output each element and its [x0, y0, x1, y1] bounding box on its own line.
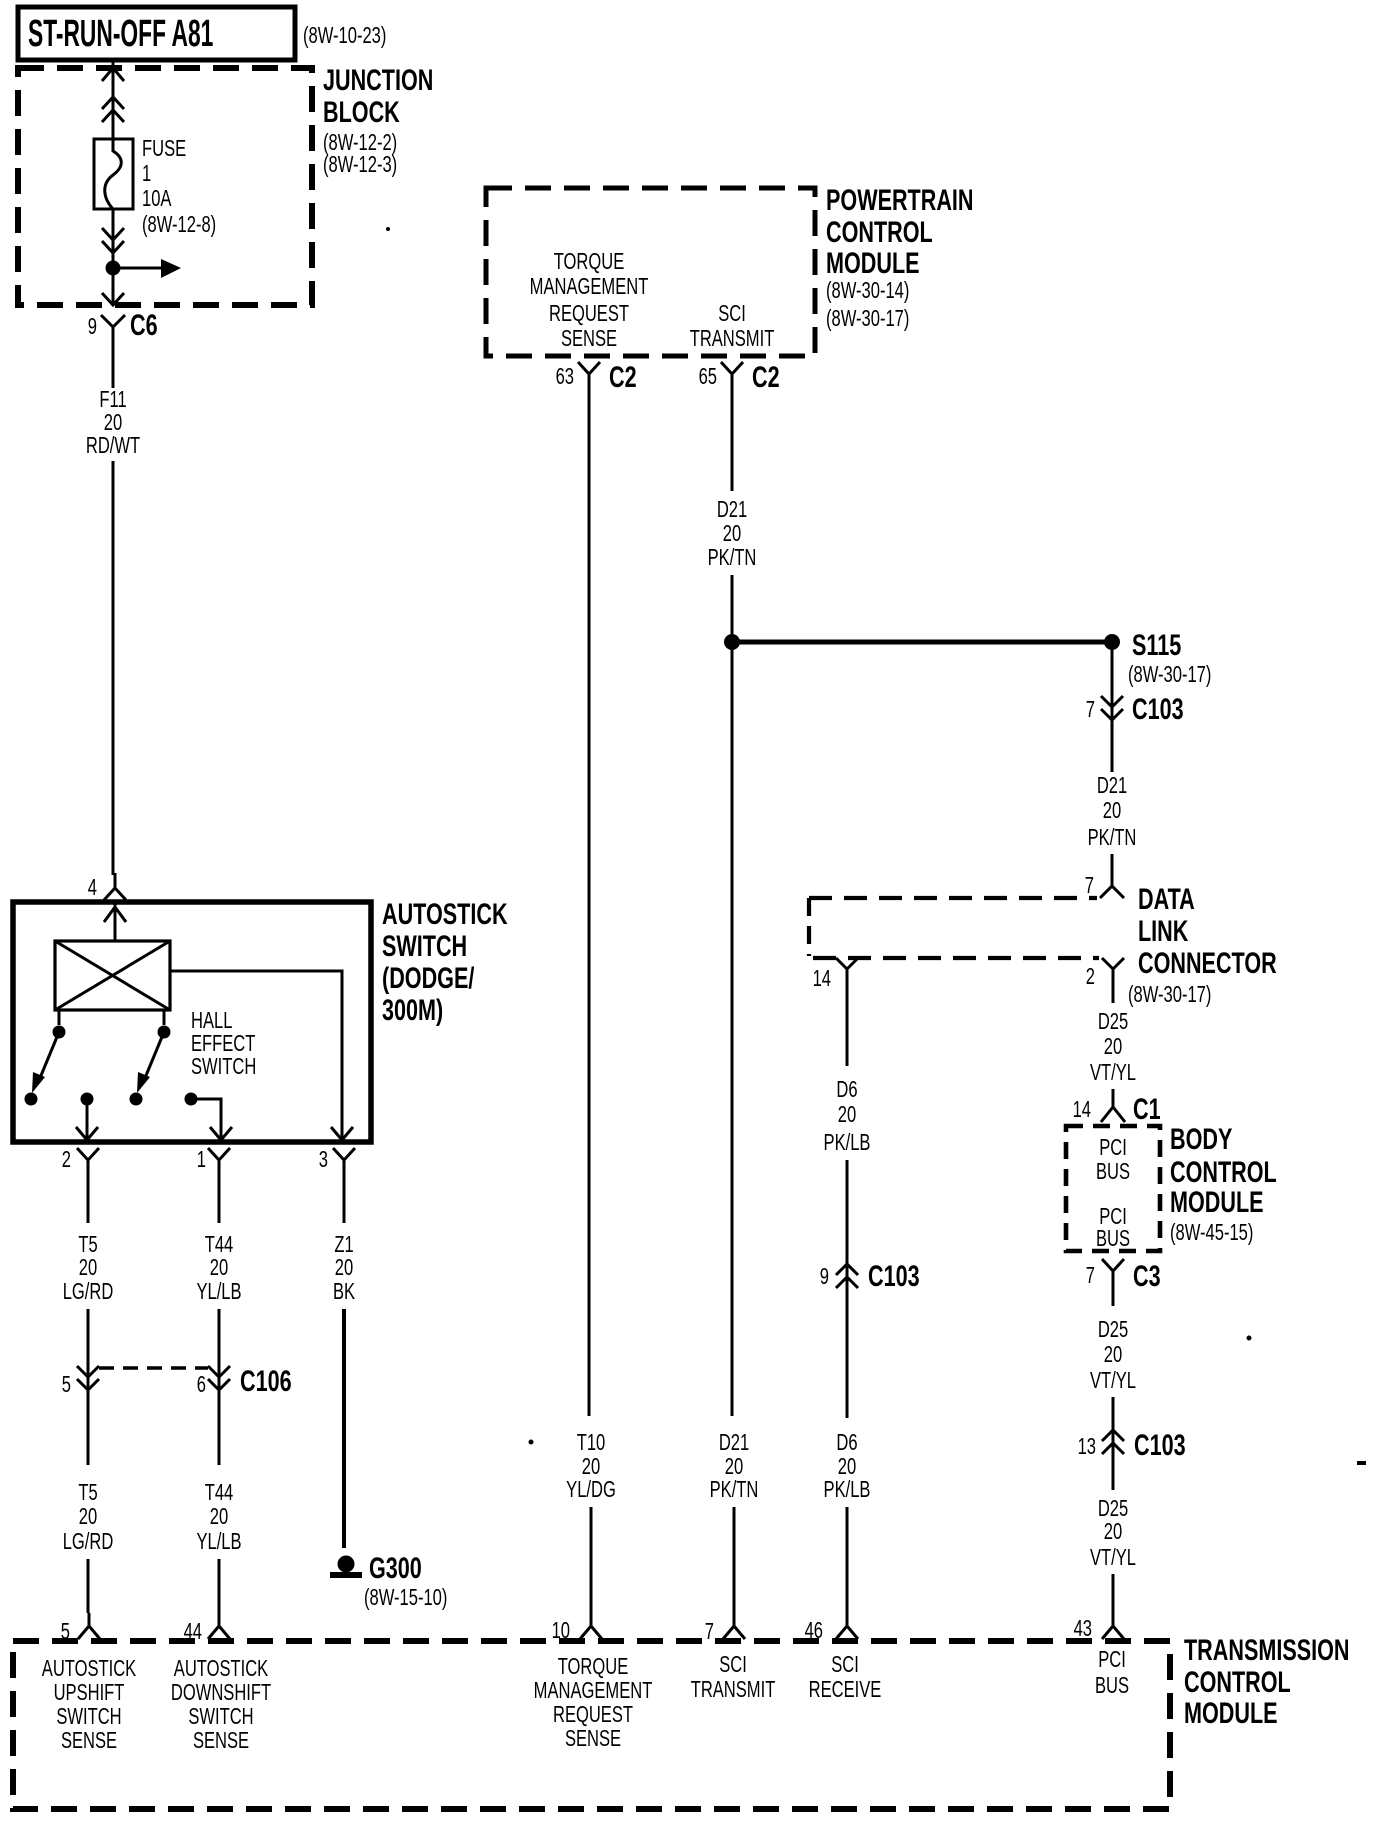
svg-text:TRANSMIT: TRANSMIT [691, 1677, 776, 1702]
wire T44 lower [218, 1390, 221, 1465]
wire T44 upper [218, 1176, 221, 1223]
svg-text:D25: D25 [1098, 1317, 1128, 1342]
wire D25 below C3 [1112, 1291, 1115, 1306]
wire label F11 20 RD/WT [86, 387, 140, 458]
svg-text:D25: D25 [1098, 1496, 1128, 1521]
svg-text:D25: D25 [1098, 1009, 1128, 1034]
TCM pin 10 [552, 1613, 602, 1644]
wire below fuse [112, 209, 115, 262]
wire T44 to TCM [218, 1559, 221, 1613]
svg-text:43: 43 [1074, 1616, 1092, 1641]
node ST-RUN-OFF A81 feed box [18, 7, 295, 60]
wire D6 to TCM [846, 1507, 849, 1613]
svg-text:C2: C2 [609, 359, 637, 393]
TCM SCI transmit label [691, 1652, 776, 1702]
svg-text:SENSE: SENSE [61, 1728, 117, 1753]
junction block dashed box [18, 68, 312, 305]
arrow up inside box top [104, 907, 126, 922]
svg-text:DOWNSHIFT: DOWNSHIFT [171, 1680, 271, 1705]
scan speck 4 [1357, 1461, 1366, 1465]
PCM SCI transmit pin label [690, 301, 775, 351]
svg-text:20: 20 [79, 1504, 97, 1529]
hall effect switch label [191, 1008, 256, 1079]
TCM pin 43 [1074, 1613, 1124, 1642]
svg-text:7: 7 [1086, 1263, 1095, 1288]
svg-text:20: 20 [210, 1504, 228, 1529]
svg-text:SENSE: SENSE [565, 1726, 621, 1751]
autostick switch box [13, 902, 371, 1142]
fuse 1 10A element [94, 139, 133, 209]
scan speck 1 [386, 227, 390, 231]
svg-text:PK/TN: PK/TN [708, 545, 757, 570]
wire into DLC pin 7 [1111, 854, 1114, 886]
svg-text:20: 20 [723, 521, 741, 546]
svg-text:2: 2 [62, 1147, 71, 1172]
svg-text:5: 5 [62, 1372, 71, 1397]
PCM label [826, 182, 974, 331]
svg-text:20: 20 [1104, 1034, 1122, 1059]
wire D25 below C103 [1112, 1454, 1115, 1490]
DLC label [1128, 881, 1277, 1007]
svg-text:ST-RUN-OFF A81: ST-RUN-OFF A81 [28, 12, 213, 54]
svg-text:CONNECTOR: CONNECTOR [1138, 945, 1277, 979]
wire F11 long segment down to autostick switch [112, 461, 115, 875]
wire to bottom of junction block [112, 275, 115, 304]
svg-text:(8W-45-15): (8W-45-15) [1170, 1220, 1253, 1245]
PCM torque management request sense pin label [530, 249, 649, 351]
svg-text:MANAGEMENT: MANAGEMENT [530, 274, 649, 299]
wire to BCM [1112, 1089, 1115, 1094]
wire contact 1 to pin1 [191, 1099, 221, 1140]
svg-text:SWITCH: SWITCH [382, 928, 467, 962]
wire D6 mid [846, 1160, 849, 1290]
svg-text:RECEIVE: RECEIVE [809, 1677, 882, 1702]
svg-text:9: 9 [88, 314, 97, 339]
svg-text:65: 65 [699, 364, 717, 389]
arrow at pin3 internal wire [331, 1127, 353, 1140]
svg-text:20: 20 [79, 1255, 97, 1280]
svg-text:RD/WT: RD/WT [86, 433, 140, 458]
fuse label [142, 136, 216, 237]
label T44 20 YL/LB [196, 1232, 241, 1304]
svg-text:G300: G300 [369, 1550, 422, 1584]
svg-text:BUS: BUS [1096, 1226, 1130, 1251]
PCM pin 65 connector C2 [699, 359, 780, 393]
svg-text:POWERTRAIN: POWERTRAIN [826, 182, 974, 216]
autostick switch label [382, 896, 508, 1026]
wire D21 to TCM [733, 1507, 736, 1613]
svg-text:JUNCTION: JUNCTION [323, 62, 433, 96]
svg-text:D6: D6 [836, 1077, 857, 1102]
wire T10 to TCM [590, 1507, 593, 1613]
PCM pin 63 connector C2 [556, 359, 637, 393]
wire D6 below C103 [846, 1288, 849, 1418]
junction node dot [106, 261, 121, 276]
connector C106 pin 6 [197, 1366, 230, 1398]
splice node on D21 [724, 634, 740, 650]
label D25 20 VT/YL third [1090, 1496, 1136, 1570]
svg-text:BUS: BUS [1096, 1159, 1130, 1184]
wire from feed box into junction block [112, 60, 115, 139]
label D21 20 PK/TN lower [710, 1430, 759, 1502]
data link connector dashed outline [809, 898, 1099, 958]
svg-text:PK/TN: PK/TN [1088, 825, 1137, 850]
svg-text:BK: BK [333, 1279, 356, 1304]
svg-text:AUTOSTICK: AUTOSTICK [174, 1656, 269, 1681]
svg-text:T44: T44 [205, 1480, 234, 1505]
svg-text:PCI: PCI [1099, 1135, 1127, 1160]
pin 2 connector [62, 1147, 99, 1176]
svg-text:2: 2 [1086, 964, 1095, 989]
connector C6 pin 9 [88, 307, 158, 350]
wire T44 to C106 [218, 1309, 221, 1392]
svg-text:7: 7 [705, 1619, 714, 1644]
TCM SCI receive label [809, 1652, 882, 1702]
svg-text:4: 4 [88, 875, 97, 900]
svg-text:EFFECT: EFFECT [191, 1031, 255, 1056]
wire T10 long segment [588, 392, 591, 1416]
wire from S115 down [1111, 650, 1114, 722]
TCM torque management request sense label [534, 1654, 653, 1751]
svg-text:PK/LB: PK/LB [824, 1477, 871, 1502]
svg-text:C103: C103 [1132, 691, 1184, 725]
svg-text:T10: T10 [577, 1430, 606, 1455]
pin 3 connector [319, 1147, 355, 1176]
svg-text:BLOCK: BLOCK [323, 94, 400, 128]
arrow at pin1 internal [210, 1127, 232, 1140]
svg-text:20: 20 [725, 1454, 743, 1479]
svg-text:10A: 10A [142, 186, 172, 211]
label D21 20 PK/TN at DLC [1088, 773, 1137, 850]
svg-text:SCI: SCI [718, 301, 746, 326]
svg-text:7: 7 [1085, 873, 1094, 898]
svg-text:YL/DG: YL/DG [566, 1477, 616, 1502]
svg-text:SENSE: SENSE [561, 326, 617, 351]
right switch arm with arrowhead [137, 1032, 164, 1093]
svg-text:TRANSMIT: TRANSMIT [690, 326, 775, 351]
wire Z1 upper [343, 1176, 346, 1223]
wire D21 upper [731, 392, 734, 491]
svg-text:CONTROL: CONTROL [826, 214, 933, 248]
svg-text:20: 20 [1104, 1342, 1122, 1367]
left switch arm with arrowhead [32, 1032, 59, 1093]
TCM pin 44 [184, 1613, 230, 1645]
left switch pole dot [53, 1026, 66, 1039]
svg-text:SWITCH: SWITCH [188, 1704, 253, 1729]
label Z1 20 BK [333, 1232, 356, 1304]
wire T5 to C106 [87, 1309, 90, 1392]
splice branch line to S115 [732, 640, 1112, 645]
BCM pin 7 connector C3 [1086, 1258, 1161, 1292]
svg-text:C6: C6 [130, 307, 158, 341]
connector C103 pin 7 [1086, 691, 1184, 725]
BCM PCI BUS out label [1096, 1204, 1130, 1251]
svg-text:PK/TN: PK/TN [710, 1477, 759, 1502]
svg-text:TRANSMISSION: TRANSMISSION [1184, 1632, 1350, 1666]
svg-text:14: 14 [813, 966, 831, 991]
svg-text:20: 20 [104, 410, 122, 435]
svg-text:(8W-12-8): (8W-12-8) [142, 212, 216, 237]
label D25 20 VT/YL second [1090, 1317, 1136, 1393]
svg-text:63: 63 [556, 364, 574, 389]
BCM label [1170, 1121, 1277, 1245]
label T44 20 YL/LB lower [196, 1480, 241, 1554]
svg-text:C103: C103 [868, 1258, 920, 1292]
svg-text:(8W-30-17): (8W-30-17) [826, 306, 909, 331]
label D6 20 PK/LB lower [824, 1430, 871, 1502]
svg-text:VT/YL: VT/YL [1090, 1060, 1136, 1085]
scan speck 2 [529, 1440, 534, 1445]
svg-text:D21: D21 [719, 1430, 749, 1455]
label T5 20 LG/RD lower [63, 1480, 114, 1554]
svg-text:DATA: DATA [1138, 881, 1195, 915]
svg-text:SCI: SCI [831, 1652, 859, 1677]
wire D21 below C103 [1111, 720, 1114, 772]
wire F11 upper segment [112, 350, 115, 388]
DLC pin 7 [1085, 873, 1124, 898]
double chevron up (in-line connector) [102, 97, 124, 122]
svg-text:3: 3 [319, 1147, 328, 1172]
connector C106 pin 5 [62, 1366, 99, 1398]
svg-text:BODY: BODY [1170, 1121, 1232, 1155]
svg-text:VT/YL: VT/YL [1090, 1545, 1136, 1570]
svg-text:YL/LB: YL/LB [196, 1529, 241, 1554]
svg-text:C2: C2 [752, 359, 780, 393]
svg-text:F11: F11 [99, 387, 126, 412]
svg-text:7: 7 [1086, 697, 1095, 722]
svg-text:REQUEST: REQUEST [553, 1702, 633, 1727]
svg-text:20: 20 [838, 1454, 856, 1479]
arrow at pin2 internal [76, 1127, 98, 1140]
ground label G300 (8W-15-10) [364, 1550, 447, 1610]
svg-text:VT/YL: VT/YL [1090, 1368, 1136, 1393]
svg-text:LINK: LINK [1138, 913, 1188, 947]
svg-text:13: 13 [1078, 1434, 1096, 1459]
ground G300 [330, 1556, 362, 1579]
connector C103 pin 13 [1078, 1427, 1186, 1461]
TCM autostick downshift switch sense label [171, 1656, 271, 1753]
svg-text:14: 14 [1073, 1097, 1091, 1122]
svg-text:C1: C1 [1133, 1091, 1161, 1125]
hall effect block (crossed box) [55, 941, 170, 1010]
label D21 20 PK/TN upper [708, 497, 757, 570]
svg-text:MANAGEMENT: MANAGEMENT [534, 1678, 653, 1703]
svg-text:(8W-30-17): (8W-30-17) [1128, 982, 1211, 1007]
svg-text:SWITCH: SWITCH [191, 1054, 256, 1079]
svg-text:LG/RD: LG/RD [63, 1529, 114, 1554]
TCM label [1184, 1632, 1350, 1729]
svg-text:C106: C106 [240, 1363, 292, 1397]
TCM pin 7 [705, 1613, 745, 1645]
svg-text:(DODGE/: (DODGE/ [382, 960, 474, 994]
C106 dashed tie line [99, 1366, 208, 1369]
svg-text:20: 20 [1103, 798, 1121, 823]
svg-text:(8W-10-23): (8W-10-23) [303, 23, 386, 48]
svg-text:9: 9 [820, 1264, 829, 1289]
branch arrow to other circuits [113, 259, 181, 278]
DLC pin 14 [813, 958, 858, 992]
arrow up at junction block border [102, 68, 124, 81]
wire T5 to TCM [87, 1559, 90, 1613]
svg-text:D21: D21 [1097, 773, 1127, 798]
svg-text:T5: T5 [78, 1480, 97, 1505]
svg-text:HALL: HALL [191, 1008, 232, 1033]
pin 1 connector [197, 1147, 230, 1176]
svg-text:MODULE: MODULE [1170, 1184, 1264, 1218]
svg-text:S115: S115 [1132, 627, 1181, 661]
svg-text:6: 6 [197, 1372, 206, 1397]
svg-text:BUS: BUS [1095, 1673, 1129, 1698]
svg-text:MODULE: MODULE [826, 245, 920, 279]
svg-text:PCI: PCI [1098, 1647, 1126, 1672]
svg-text:20: 20 [210, 1255, 228, 1280]
TCM pin 46 [805, 1613, 858, 1644]
body control module dashed box [1066, 1126, 1160, 1251]
wire D25 to C103 [1112, 1397, 1115, 1456]
splice S115 [1104, 627, 1211, 687]
TCM PCI BUS label [1095, 1647, 1129, 1698]
wire T5 lower [87, 1390, 90, 1465]
label T5 20 LG/RD [63, 1232, 114, 1304]
svg-text:Z1: Z1 [334, 1232, 353, 1257]
wire D6 upper [846, 988, 849, 1066]
svg-text:YL/LB: YL/LB [196, 1279, 241, 1304]
svg-text:20: 20 [838, 1102, 856, 1127]
BCM PCI BUS in label [1096, 1135, 1130, 1184]
svg-text:FUSE: FUSE [142, 136, 186, 161]
svg-text:1: 1 [142, 161, 151, 186]
svg-text:SCI: SCI [719, 1652, 747, 1677]
switch contact stubs and poles [59, 1010, 164, 1025]
svg-text:D6: D6 [836, 1430, 857, 1455]
svg-text:TORQUE: TORQUE [554, 249, 625, 274]
svg-text:CONTROL: CONTROL [1184, 1664, 1291, 1698]
powertrain control module dashed box [486, 188, 815, 356]
pin 4 of autostick switch [88, 873, 126, 901]
double chevron down below fuse [102, 228, 124, 253]
svg-text:TORQUE: TORQUE [558, 1654, 629, 1679]
wire into hall effect block [114, 902, 117, 941]
svg-text:UPSHIFT: UPSHIFT [54, 1680, 125, 1705]
svg-text:MODULE: MODULE [1184, 1695, 1278, 1729]
svg-text:T5: T5 [78, 1232, 97, 1257]
svg-text:SWITCH: SWITCH [56, 1704, 121, 1729]
arrow down at junction block bottom border [102, 293, 124, 305]
wire T5 upper [87, 1176, 90, 1223]
DLC pin 2 [1086, 958, 1124, 990]
label D6 20 PK/LB upper [824, 1077, 871, 1155]
svg-text:1: 1 [197, 1147, 206, 1172]
svg-text:C103: C103 [1134, 1427, 1186, 1461]
svg-text:REQUEST: REQUEST [549, 301, 629, 326]
wire D25 from DLC pin 2 [1112, 988, 1115, 1003]
svg-text:20: 20 [582, 1454, 600, 1479]
svg-text:(8W-30-14): (8W-30-14) [826, 278, 909, 303]
label T10 20 YL/DG [566, 1430, 616, 1502]
svg-text:D21: D21 [717, 497, 747, 522]
junction block label [323, 62, 433, 177]
svg-text:SENSE: SENSE [193, 1728, 249, 1753]
wire Z1 down to ground [342, 1309, 346, 1548]
svg-text:(8W-30-17): (8W-30-17) [1128, 662, 1211, 687]
right switch pole dot [158, 1026, 171, 1039]
svg-text:20: 20 [335, 1255, 353, 1280]
svg-text:AUTOSTICK: AUTOSTICK [382, 896, 508, 930]
label D25 20 VT/YL first [1090, 1009, 1136, 1085]
internal wire from block to pin 3 [170, 971, 342, 1140]
scan speck 3 [1247, 1336, 1252, 1341]
wire D21 mid segment [731, 575, 734, 1416]
svg-text:(8W-12-3): (8W-12-3) [323, 152, 397, 177]
wire D25 to TCM [1112, 1574, 1115, 1613]
wire contact 2 down [86, 1099, 89, 1140]
svg-text:T44: T44 [205, 1232, 234, 1257]
svg-text:LG/RD: LG/RD [63, 1279, 114, 1304]
TCM autostick upshift switch sense label [42, 1656, 137, 1753]
TCM pin 5 [61, 1613, 100, 1645]
transmission control module dashed box [13, 1641, 1170, 1809]
connector C103 pin 9 [820, 1258, 920, 1292]
svg-text:PK/LB: PK/LB [824, 1130, 871, 1155]
svg-text:(8W-15-10): (8W-15-10) [364, 1585, 447, 1610]
svg-text:C3: C3 [1133, 1258, 1161, 1292]
contact dots row [25, 1093, 38, 1106]
svg-text:300M): 300M) [382, 992, 443, 1026]
svg-text:20: 20 [1104, 1519, 1122, 1544]
svg-text:AUTOSTICK: AUTOSTICK [42, 1656, 137, 1681]
BCM pin 14 connector C1 [1073, 1090, 1161, 1126]
